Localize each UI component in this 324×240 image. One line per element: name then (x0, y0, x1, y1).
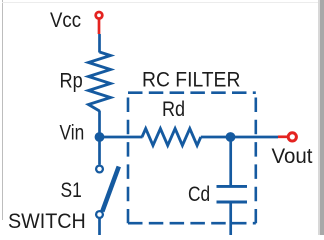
node Vin (95, 132, 105, 142)
wire red below Vcc terminal (98, 20, 101, 35)
switch S1 top contact (96, 166, 103, 173)
capacitor Cd bottom plate (217, 201, 248, 204)
frame top edge (2, 2, 320, 4)
wire Vcc to Rp (98, 34, 101, 53)
wire Rp to switch (98, 111, 101, 165)
switch S1 blade (102, 167, 119, 212)
wire red to Vout terminal (278, 135, 288, 138)
RC filter dashed box bottom (128, 222, 256, 225)
svg-text:Vcc: Vcc (50, 8, 81, 32)
resistor Rp (89, 52, 111, 111)
svg-text:Rp: Rp (60, 69, 83, 93)
terminal Vout (288, 133, 296, 141)
terminal Vcc (96, 12, 103, 19)
svg-text:Vin: Vin (60, 121, 85, 145)
resistor Rd (142, 129, 201, 146)
svg-text:Cd: Cd (188, 182, 210, 206)
wire node to Cd (229, 137, 232, 186)
frame right edge (319, 0, 324, 235)
capacitor Cd top plate (217, 185, 248, 188)
svg-text:RC FILTER: RC FILTER (142, 68, 240, 92)
svg-text:Vout: Vout (272, 144, 313, 168)
svg-text:S1: S1 (61, 178, 82, 202)
svg-text:Rd: Rd (162, 97, 185, 121)
node Vout junction (226, 132, 236, 142)
wire Rd to Vout (201, 136, 278, 139)
RC filter dashed box top (128, 91, 256, 94)
switch S1 bottom contact (96, 211, 103, 218)
frame left edge (2, 0, 4, 220)
wire Cd to bottom (229, 202, 232, 235)
RC filter dashed box right (255, 93, 258, 224)
svg-text:SWITCH: SWITCH (8, 209, 86, 233)
wire switch to bottom (98, 218, 101, 235)
wire Vin to Rd (100, 136, 143, 139)
RC filter dashed box left (127, 93, 130, 224)
